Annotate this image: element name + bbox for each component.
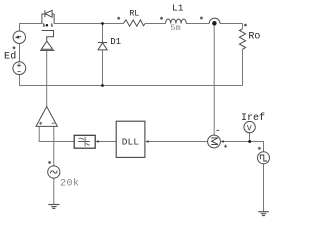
node Iref junction dot xyxy=(248,140,251,143)
wire D1 branch xyxy=(102,24,104,86)
wire Ro bottom to rail xyxy=(242,49,244,85)
source Ed circle xyxy=(13,62,26,75)
svg-text:V: V xyxy=(247,124,252,133)
block DLL box xyxy=(116,121,145,157)
svg-text:L1: L1 xyxy=(172,2,184,13)
summer sigma glyph xyxy=(211,138,218,145)
wire top rail mid segment xyxy=(54,23,123,25)
op-amp plus sign xyxy=(39,122,55,125)
arrowhead into limiter right edge xyxy=(95,140,98,143)
diode D1 xyxy=(98,43,107,50)
current flag star square source xyxy=(258,147,261,150)
wire sine source to ground xyxy=(53,178,55,204)
transistor Q1 antiparallel diode (horizontal, cathode left) xyxy=(42,10,54,23)
probe V circle (Iref) xyxy=(244,121,255,132)
transistor Q1 gate and body xyxy=(40,31,55,51)
ground right xyxy=(258,212,268,216)
wire RL to L1 xyxy=(145,23,165,25)
svg-text:D1: D1 xyxy=(110,37,121,47)
summer minus sign xyxy=(216,129,219,131)
source square-wave glyph xyxy=(260,155,267,161)
limiter block box xyxy=(74,135,95,148)
op-amp minus sign xyxy=(52,122,55,124)
summer circle xyxy=(208,135,221,148)
ground left xyxy=(48,205,59,209)
svg-text:Ro: Ro xyxy=(248,31,260,42)
wire V probe stem xyxy=(249,133,251,142)
wire sensor arc to Ro corner xyxy=(220,23,243,25)
ammeter arrow glyph xyxy=(16,36,21,38)
source sine circle xyxy=(48,166,60,178)
svg-text:RL: RL xyxy=(129,9,139,19)
wire Ed source to bottom rail xyxy=(19,75,21,86)
current flag star sine source xyxy=(48,161,51,164)
source sine glyph xyxy=(50,171,57,174)
summer plus sign xyxy=(224,145,227,148)
arrowhead into summer right edge xyxy=(221,140,224,143)
current flag star L1 xyxy=(160,17,163,20)
svg-text:20k: 20k xyxy=(60,177,80,189)
wire top rail left segment xyxy=(19,23,42,25)
wire Iref node to square source xyxy=(250,142,264,152)
current flag star Ed xyxy=(13,46,16,49)
wire DLL to summer xyxy=(148,141,208,143)
wire op-amp plus lead to limiter xyxy=(39,126,74,141)
source square-wave circle xyxy=(258,152,270,164)
current sensor arc bump xyxy=(209,18,220,23)
resistor RL zigzag xyxy=(123,20,145,26)
op-amp comparator triangle xyxy=(36,107,57,127)
current flag star Ro xyxy=(244,24,247,27)
resistor Ro zigzag xyxy=(239,29,245,50)
wire MOSFET gate stem down to op-amp xyxy=(46,50,48,106)
svg-text:Ed: Ed xyxy=(4,51,17,63)
wire Ro branch top corner xyxy=(242,24,244,29)
wire summer to Iref node xyxy=(223,141,250,143)
svg-text:5m: 5m xyxy=(170,23,180,33)
wire op-amp minus lead to sine source xyxy=(53,126,55,165)
ammeter probe circle xyxy=(13,31,25,43)
arrowhead into DLL right edge xyxy=(145,140,148,143)
node D1 top junction dot xyxy=(101,22,104,25)
wire square source to ground xyxy=(263,164,265,212)
node current sensor dot xyxy=(212,21,217,26)
source Ed minus sign xyxy=(17,71,20,73)
inductor L1 coil xyxy=(166,19,187,24)
wire left branch top (corner to ammeter) xyxy=(19,24,21,32)
wire bottom rail xyxy=(19,85,242,87)
wire current sensor vertical down to summer xyxy=(213,24,215,136)
wire limiter to DLL xyxy=(98,141,116,143)
current flag star RL xyxy=(117,17,120,20)
wire L1 to sensor arc xyxy=(186,23,209,25)
limiter block axes and curve xyxy=(78,137,90,147)
wire ammeter to Ed source xyxy=(19,43,21,61)
svg-text:DLL: DLL xyxy=(122,136,139,147)
node D1 bottom junction dot xyxy=(101,84,104,87)
label Q1 (1*1) xyxy=(43,24,53,26)
svg-text:Iref: Iref xyxy=(241,112,265,124)
current flag star sensor xyxy=(200,17,203,20)
source Ed plus sign xyxy=(17,63,21,71)
